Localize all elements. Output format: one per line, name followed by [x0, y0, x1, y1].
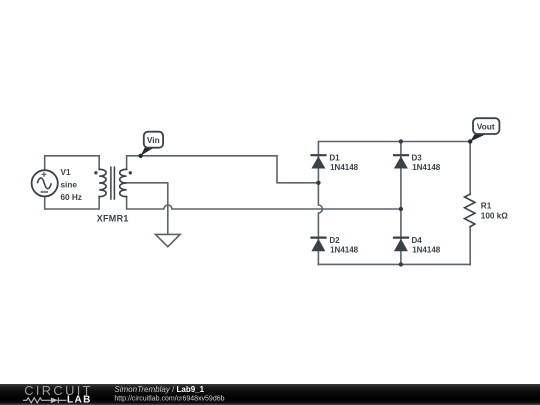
svg-text:100 kΩ: 100 kΩ: [481, 212, 508, 221]
svg-text:D2: D2: [329, 236, 340, 245]
svg-text:1N4148: 1N4148: [412, 246, 441, 255]
svg-text:D4: D4: [412, 236, 423, 245]
svg-text:SimonTremblay / Lab9_1: SimonTremblay / Lab9_1: [114, 385, 204, 394]
svg-text:Vout: Vout: [477, 122, 495, 132]
svg-text:sine: sine: [61, 181, 78, 190]
svg-text:Vin: Vin: [147, 135, 160, 145]
svg-text:http://circuitlab.com/cr6948xv: http://circuitlab.com/cr6948xv59d6b: [114, 395, 224, 402]
svg-text:XFMR1: XFMR1: [97, 214, 129, 224]
svg-text:D1: D1: [329, 153, 340, 162]
svg-text:1N4148: 1N4148: [330, 163, 359, 172]
svg-text:60 Hz: 60 Hz: [61, 193, 82, 202]
svg-text:D3: D3: [412, 153, 423, 162]
svg-text:LAB: LAB: [67, 395, 92, 405]
svg-text:R1: R1: [481, 201, 492, 210]
svg-text:1N4148: 1N4148: [330, 246, 359, 255]
svg-text:V1: V1: [61, 168, 71, 177]
svg-text:1N4148: 1N4148: [412, 163, 441, 172]
